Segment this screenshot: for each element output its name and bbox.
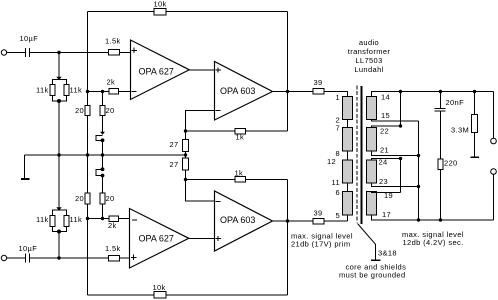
svg-text:11k: 11k	[36, 215, 49, 224]
resistor R-20 lower-left	[85, 193, 90, 204]
input terminal lower	[1, 255, 6, 260]
resistor R-27 upper	[183, 140, 189, 152]
svg-text:27: 27	[170, 140, 179, 149]
svg-text:1k: 1k	[235, 169, 244, 178]
node input lower junction	[57, 256, 60, 259]
resistor R-39 lower	[313, 219, 324, 225]
resistor R-1.5k upper	[109, 50, 120, 56]
wire 11k pair upper stub top	[58, 53, 60, 80]
svg-text:1.5k: 1.5k	[105, 37, 121, 46]
wire 11k pair lower stub top	[58, 155, 60, 210]
transformer T1 secondary winding 4	[367, 192, 377, 216]
core shield dashed line	[356, 86, 358, 224]
transformer T1 primary winding 4	[343, 192, 353, 216]
svg-text:audio: audio	[359, 38, 379, 47]
svg-text:220: 220	[444, 159, 458, 168]
svg-text:21: 21	[380, 146, 389, 155]
svg-text:39: 39	[314, 78, 323, 87]
svg-text:11k: 11k	[70, 86, 83, 95]
wire 11k pair lower stub bottom	[58, 232, 60, 259]
svg-text:39: 39	[314, 209, 323, 218]
svg-text:1k: 1k	[236, 133, 245, 142]
svg-text:3.3M: 3.3M	[451, 126, 469, 135]
svg-text:OPA 627: OPA 627	[139, 67, 174, 77]
ground symbol right	[471, 156, 480, 158]
svg-text:23: 23	[379, 177, 388, 186]
wire trim branch upper	[102, 92, 104, 134]
wire 11k pair upper stub bottom	[58, 101, 60, 155]
wire ground row	[25, 154, 186, 156]
resistor R-20 upper-right	[100, 106, 105, 116]
capacitor C2 10uF	[26, 254, 30, 263]
transformer T1 primary winding 2	[343, 128, 353, 152]
wire sec pin19 row	[372, 192, 401, 193]
wire sec parallel link upper	[400, 92, 402, 127]
wire sec pin14 top row	[372, 92, 494, 97]
node gnd-row trim vertical	[101, 153, 104, 156]
svg-text:7: 7	[335, 124, 340, 133]
svg-text:1.5k: 1.5k	[105, 244, 121, 253]
node U3 output junction	[286, 219, 289, 222]
wire feedback right vertical upper	[287, 12, 289, 132]
svg-text:15: 15	[381, 111, 390, 120]
svg-text:2k: 2k	[107, 78, 116, 87]
shield ground pointer 3&18	[358, 224, 376, 261]
svg-text:11k: 11k	[36, 86, 49, 95]
svg-text:5: 5	[335, 211, 340, 220]
svg-text:11: 11	[332, 178, 341, 187]
svg-text:12: 12	[327, 157, 336, 166]
wire top feedback line	[88, 11, 288, 13]
capacitor C3 20nF	[440, 92, 442, 109]
op-amp U2 OPA603 upper	[215, 62, 273, 121]
transformer T1 secondary winding 1	[367, 97, 377, 120]
link jumper upper	[100, 132, 105, 135]
svg-text:21db (17V) prim: 21db (17V) prim	[291, 240, 350, 249]
node 2k-mid junction	[101, 90, 104, 93]
node gnd-row 11k	[57, 153, 60, 156]
wire 2k row lower	[88, 218, 130, 220]
resistor R-2k lower	[109, 216, 119, 222]
node U3 minus / 1k junction	[184, 178, 187, 181]
resistor R-1k lower	[235, 177, 246, 183]
wire to xfmr pin5	[347, 215, 349, 221]
wire bottom feedback line	[88, 294, 288, 296]
svg-text:14: 14	[381, 93, 390, 102]
svg-text:20: 20	[75, 194, 84, 203]
wire sec pin24 row	[372, 159, 401, 161]
resistor R-20 lower-right	[100, 193, 105, 204]
output terminal plus	[491, 138, 497, 144]
svg-text:OPA 627: OPA 627	[139, 234, 174, 244]
svg-text:11k: 11k	[70, 215, 83, 224]
op-amp U1 OPA627 upper	[131, 40, 190, 100]
resistor pair 11k/11k lower	[52, 210, 67, 232]
svg-text:OPA 603: OPA 603	[220, 86, 255, 96]
svg-text:20: 20	[106, 194, 115, 203]
wire sec pin22 row	[372, 126, 401, 128]
resistor R-10k bottom	[154, 292, 166, 299]
resistor R-1k upper	[235, 129, 246, 135]
svg-text:27: 27	[170, 160, 179, 169]
wire U3 minus loop	[186, 155, 215, 201]
svg-text:must be grounded: must be grounded	[339, 271, 406, 280]
resistor R-10k top	[154, 9, 166, 16]
svg-text:10µF: 10µF	[19, 244, 38, 253]
wire sec pin15 row	[372, 120, 419, 122]
wire feedback right vertical lower	[287, 180, 289, 296]
svg-text:12db (4.2V) sec.: 12db (4.2V) sec.	[403, 238, 464, 247]
resistor R-1.5k lower	[109, 256, 120, 262]
capacitor C1 10uF	[26, 48, 30, 57]
wire 1k feedback row lower	[186, 179, 288, 181]
svg-text:LL7503: LL7503	[355, 56, 382, 65]
resistor R-3.3M	[474, 92, 476, 157]
transformer T1 secondary winding 3	[367, 160, 377, 183]
svg-text:20nF: 20nF	[446, 98, 465, 107]
svg-text:Lundahl: Lundahl	[354, 65, 383, 74]
wire sec pin21 row	[372, 151, 419, 156]
svg-text:10µF: 10µF	[20, 34, 39, 43]
wire 2k row upper	[88, 91, 131, 93]
svg-text:8: 8	[335, 149, 340, 158]
node gnd-row 27 junction	[184, 153, 187, 156]
wire sec bottom row	[372, 215, 494, 220]
resistor R-2k upper	[109, 89, 119, 95]
wire sec pin23 row	[372, 183, 419, 187]
svg-text:2k: 2k	[108, 221, 117, 230]
wire left gain ladder vertical	[87, 12, 89, 296]
resistor R-39 upper	[313, 89, 324, 95]
wire 1k feedback row upper	[186, 130, 288, 132]
wire sec parallel link lower	[400, 159, 402, 193]
wire output minus drop	[493, 174, 495, 220]
svg-text:1: 1	[335, 93, 340, 102]
svg-text:22: 22	[380, 127, 389, 136]
wire U2 output row	[273, 92, 348, 97]
output terminal minus	[491, 169, 497, 175]
input terminal upper	[1, 50, 6, 55]
resistor R-27 lower	[183, 158, 189, 170]
svg-text:6: 6	[335, 188, 340, 197]
resistor pair 11k/11k upper	[52, 80, 67, 102]
svg-text:3&18: 3&18	[378, 249, 397, 258]
wire U1 output to U2 plus	[189, 69, 214, 71]
node U2 minus / 1k junction	[184, 129, 187, 132]
wire sec right vertical	[418, 121, 420, 220]
resistor R-20 upper-left	[85, 106, 90, 116]
transformer T1 primary winding 3	[343, 160, 353, 183]
core solid line	[361, 86, 363, 224]
svg-text:OPA 603: OPA 603	[220, 215, 255, 225]
node gnd-row left vertical	[86, 153, 89, 156]
wire U4 output to U3 plus	[189, 238, 214, 240]
node input upper junction	[57, 51, 60, 54]
resistor R-220	[438, 159, 443, 170]
transformer T1 primary winding 1	[343, 97, 353, 120]
svg-text:20: 20	[75, 106, 84, 115]
wire upper input row	[7, 52, 26, 54]
svg-text:transformer: transformer	[348, 47, 391, 56]
svg-text:10k: 10k	[154, 0, 167, 9]
node U2 output junction	[286, 90, 289, 93]
wire lower input row	[7, 257, 26, 259]
transformer T1 secondary winding 2	[367, 128, 377, 152]
node 2k-left junction	[86, 90, 89, 93]
wire output plus drop	[493, 92, 495, 139]
wire primary links	[347, 120, 349, 192]
svg-text:10k: 10k	[153, 283, 166, 292]
link jumper lower	[102, 155, 104, 169]
op-amp U3 OPA603 lower	[215, 191, 273, 251]
svg-text:17: 17	[382, 210, 391, 219]
wire U3 output row	[273, 220, 288, 222]
wire U2 minus loop	[186, 111, 215, 156]
svg-text:20: 20	[106, 106, 115, 115]
op-amp U4 OPA627 lower	[130, 209, 189, 269]
ground symbol left	[24, 155, 26, 178]
